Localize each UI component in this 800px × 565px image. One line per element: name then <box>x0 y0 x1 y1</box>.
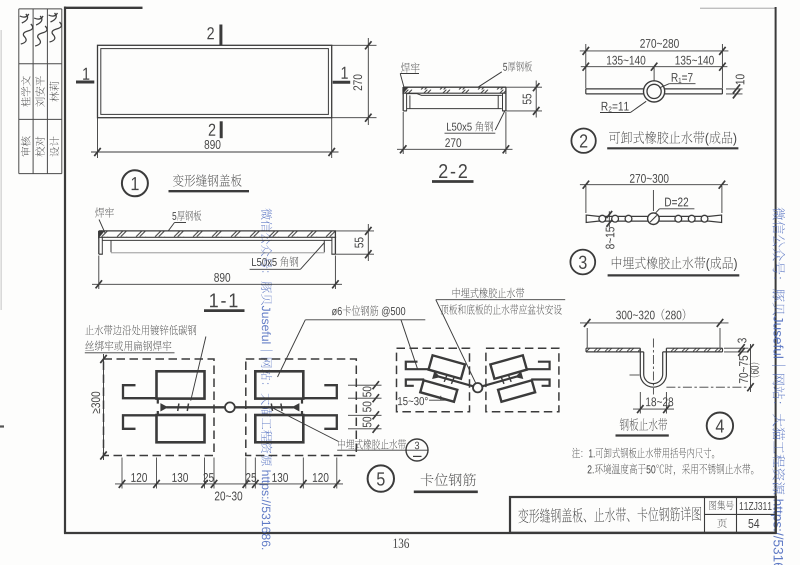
detail5 bottom dimension row <box>121 458 123 489</box>
label R2=11 <box>602 102 629 112</box>
detail4 centerline horizontal left <box>630 374 640 376</box>
label detail4 text <box>620 418 667 431</box>
dim 890 below detail1 <box>97 118 99 158</box>
note line2 <box>588 464 754 476</box>
section mark 1 right <box>342 67 348 79</box>
label 15~30 angle <box>398 397 428 405</box>
section2-2 left leg <box>402 87 404 111</box>
detail3 waterstop band <box>599 215 648 217</box>
section2-2 right leg <box>505 87 507 111</box>
border frame top faint right <box>700 7 776 9</box>
label 2-2 <box>439 164 467 178</box>
detail4 centerline vertical <box>652 339 654 395</box>
label detail3 text <box>612 257 737 271</box>
dim 55 right of section2-2 <box>506 86 542 88</box>
label 5hougangban 1-1 <box>172 210 201 220</box>
detail5b center circle <box>473 383 482 392</box>
watermark column middle <box>259 208 272 549</box>
detail4 centerline horizontal right <box>666 386 752 388</box>
label circle 1 <box>122 170 148 196</box>
label hanlao 2-2 <box>401 62 420 72</box>
section1-1 weld blob left <box>99 231 105 238</box>
detail5b assembly left <box>420 355 478 406</box>
label D=22 <box>665 198 688 207</box>
detail1 plate outer rect <box>98 45 332 117</box>
label 1-1 <box>210 293 237 307</box>
section1-1 angle vertical right <box>323 240 325 252</box>
section1-1 right leg <box>334 231 336 254</box>
section2-2 angle vertical right <box>497 95 499 108</box>
section2-2 weld blob <box>403 87 408 93</box>
detail3 center circle <box>648 213 660 225</box>
detail5 center circle <box>225 402 235 412</box>
label L50x5 jiaogang 1-1 <box>252 256 298 266</box>
section1-1 angle steel line <box>102 239 332 241</box>
section1-1 plate outline <box>99 230 336 232</box>
dim 270 right of detail1 <box>332 44 377 46</box>
detail4 U trough outer <box>640 348 666 387</box>
label circle 5 <box>368 465 394 491</box>
scan smudge left edge <box>0 30 2 310</box>
label R1=7 <box>672 73 693 83</box>
dim 300~320(280) <box>586 328 588 348</box>
ref bubble 3 <box>406 439 428 461</box>
dim 270~300 <box>585 186 587 213</box>
border frame bottom <box>64 532 777 534</box>
section1-1 angle vertical left <box>110 240 112 252</box>
label binding text <box>85 325 196 336</box>
title block outer box <box>510 497 776 533</box>
detail5 assembly right <box>235 371 337 442</box>
dim 18~28 <box>639 392 641 414</box>
title strip table texts <box>21 136 31 156</box>
label detail1 text <box>173 174 242 187</box>
detail4 plate outline <box>586 347 640 349</box>
label zhongmai bottom <box>338 439 406 449</box>
section1-1 plate hatch <box>99 231 336 237</box>
label circle 3 <box>570 250 595 275</box>
title strip table grid <box>18 9 20 174</box>
label detail2 text <box>609 131 736 145</box>
label dia6 rebar <box>332 305 405 316</box>
section2-2 inner line <box>407 94 502 96</box>
watermark column right <box>771 208 786 565</box>
dim >=300 <box>103 354 105 460</box>
detail1 plate inner rect <box>101 49 329 115</box>
label 5hougangban 2-2 <box>503 61 532 71</box>
title block divider h <box>705 513 776 515</box>
detail5 assembly left <box>157 371 205 398</box>
section2-2 angle vertical left <box>409 95 411 108</box>
section2-2 plate outline <box>403 86 506 88</box>
detail2 waterstop band <box>586 88 644 90</box>
page number 136 <box>394 539 409 548</box>
title block tujihao <box>709 500 733 510</box>
border frame left <box>64 7 66 534</box>
label L50x5 jiaogang 2-2 <box>447 121 493 131</box>
section1-1 left leg <box>98 231 100 254</box>
label zhongmai top <box>453 288 525 298</box>
section mark 1 left <box>83 68 89 80</box>
dim 3 plate thickness <box>724 347 749 349</box>
detail2 center circle inner <box>647 84 661 98</box>
label circle 4 <box>707 413 733 439</box>
title block atlas no <box>740 502 772 510</box>
detail4 plate hatch <box>586 348 640 352</box>
title block divider v1 <box>704 497 706 533</box>
detail5b dashed rect right <box>486 348 559 411</box>
detail5 dashed rect left <box>104 359 215 456</box>
detail5 50 dims <box>348 384 382 386</box>
detail3 centerline ext <box>652 190 654 211</box>
dim 270~280 <box>585 44 587 89</box>
detail5 dashed rect right <box>246 359 356 456</box>
border frame top partial <box>64 7 143 9</box>
title block divider v2 <box>736 497 738 533</box>
dim 70~75 (60) <box>750 344 752 392</box>
title block main text <box>518 506 701 523</box>
title block ye <box>717 518 727 528</box>
detail5b assembly right <box>477 355 549 406</box>
border frame right <box>775 7 777 533</box>
dim 8~15 <box>608 211 610 227</box>
label hanlao 1-1 <box>95 207 114 217</box>
dim 10 thickness <box>726 88 743 90</box>
section2-2 plate hatch <box>403 87 506 93</box>
section mark 2 top <box>207 27 214 39</box>
label circle 2 <box>571 129 595 153</box>
detail5b dashed rect left <box>397 348 470 411</box>
dim 55 right of section1-1 <box>336 230 374 232</box>
dim 270 below section2-2 <box>402 112 404 154</box>
note line1 <box>572 448 714 459</box>
section1-1 angle bottom faint <box>111 252 324 254</box>
detail4 U trough inner <box>644 352 663 384</box>
section2-2 angle bottom <box>407 108 502 110</box>
label detail5 text <box>421 473 476 486</box>
title block page 54 <box>748 519 759 528</box>
section mark 2 bottom <box>209 124 216 136</box>
detail2 center circle outer <box>644 81 665 102</box>
title strip signatures <box>20 14 33 44</box>
dim 135~140 pair <box>653 67 655 81</box>
dim 890 below section1-1 <box>98 256 100 290</box>
